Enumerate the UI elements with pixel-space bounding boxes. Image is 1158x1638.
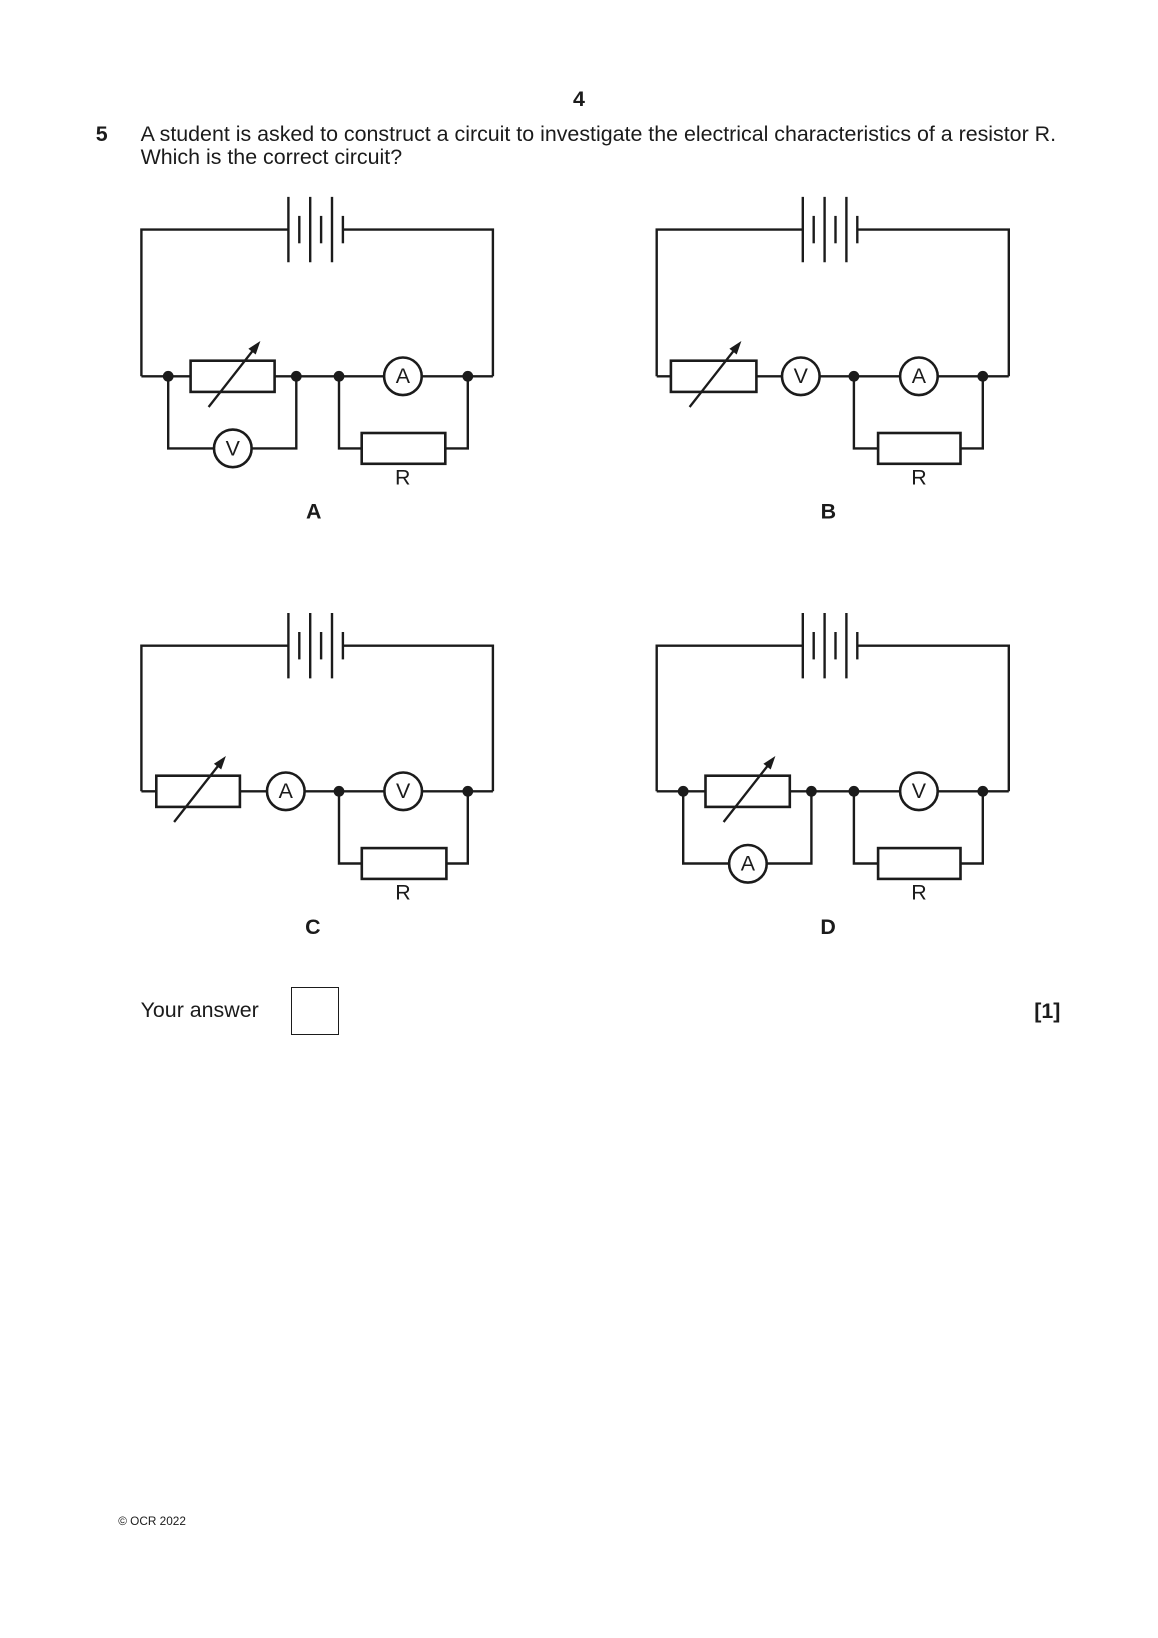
wire: circuit B resistor parallel branch	[854, 376, 983, 448]
wire: circuit D left vertical + top-left to battery	[657, 646, 803, 792]
svg-text:V: V	[912, 779, 927, 803]
battery (circuit C)	[288, 613, 343, 678]
resistor R (circuit D)	[878, 848, 960, 879]
svg-text:R: R	[395, 465, 410, 489]
svg-text:V: V	[396, 779, 411, 803]
variable resistor (circuit D)	[706, 756, 790, 822]
battery (circuit B)	[803, 197, 858, 262]
ammeter A (circuit B)	[900, 358, 938, 396]
variable resistor (circuit B)	[671, 341, 757, 407]
node junction dot 2 (circuit B)	[977, 371, 988, 382]
node junction dot 4 (circuit A)	[462, 371, 473, 382]
question text line 1	[141, 123, 1056, 147]
svg-text:A: A	[279, 779, 294, 803]
wire: circuit C main horizontal line	[141, 790, 493, 792]
wire: circuit B main horizontal line	[657, 375, 1009, 377]
node junction dot 2 (circuit C)	[462, 786, 473, 797]
node junction dot 4 (circuit D)	[977, 786, 988, 797]
svg-text:R: R	[395, 880, 410, 904]
wire: circuit D main horizontal line	[657, 790, 1009, 792]
svg-text:B: B	[821, 499, 836, 523]
node junction dot 3 (circuit A)	[334, 371, 345, 382]
voltmeter V (circuit D)	[900, 773, 938, 811]
wire: circuit A left vertical + top-left to battery	[141, 230, 288, 377]
wire: circuit C battery to top-right + right vertical	[343, 646, 493, 792]
wire: circuit D ammeter parallel branch	[683, 791, 811, 863]
wire: circuit A voltmeter parallel branch	[168, 376, 296, 448]
variable resistor (circuit A)	[191, 341, 275, 407]
node junction dot 1 (circuit C)	[334, 786, 345, 797]
node junction dot 1 (circuit A)	[163, 371, 174, 382]
wire: circuit B left vertical + top-left to battery	[657, 230, 803, 377]
wire: circuit D resistor parallel branch	[854, 791, 983, 863]
ammeter A (circuit D)	[729, 845, 767, 883]
page number	[0, 88, 1158, 112]
ammeter A (circuit C)	[267, 773, 305, 811]
voltmeter V (circuit A)	[214, 430, 252, 468]
wire: circuit B battery to top-right + right vertical	[857, 230, 1009, 377]
voltmeter V (circuit B)	[782, 358, 820, 396]
svg-text:D: D	[820, 915, 835, 939]
variable resistor (circuit C)	[156, 756, 240, 822]
svg-text:A: A	[306, 499, 321, 523]
footer copyright	[118, 1515, 186, 1528]
battery (circuit A)	[288, 197, 343, 262]
svg-text:R: R	[911, 465, 926, 489]
node junction dot 3 (circuit D)	[849, 786, 860, 797]
your answer prompt	[141, 999, 259, 1023]
mark [1]	[1034, 1000, 1060, 1024]
battery (circuit D)	[803, 613, 858, 678]
wire: circuit C left vertical + top-left to battery	[141, 646, 288, 792]
svg-text:A: A	[912, 364, 927, 388]
question number 5	[96, 123, 108, 147]
wire: circuit A battery to top-right + right vertical	[343, 230, 493, 377]
question text line 2	[141, 146, 403, 170]
svg-text:C: C	[305, 915, 320, 939]
svg-text:A: A	[741, 852, 756, 876]
svg-text:R: R	[911, 880, 926, 904]
wire: circuit A main horizontal line	[141, 375, 493, 377]
node junction dot 1 (circuit D)	[678, 786, 689, 797]
resistor R (circuit B)	[878, 433, 960, 464]
node junction dot 2 (circuit D)	[806, 786, 817, 797]
voltmeter V (circuit C)	[384, 773, 422, 811]
svg-text:A: A	[396, 364, 411, 388]
resistor R (circuit C)	[362, 848, 447, 879]
ammeter A (circuit A)	[384, 358, 422, 396]
node junction dot 1 (circuit B)	[849, 371, 860, 382]
wire: circuit A resistor parallel branch	[339, 376, 468, 448]
wire: circuit D battery to top-right + right vertical	[857, 646, 1009, 792]
node junction dot 2 (circuit A)	[291, 371, 302, 382]
svg-text:V: V	[794, 364, 809, 388]
wire: circuit C resistor parallel branch	[339, 791, 468, 863]
resistor R (circuit A)	[362, 433, 446, 464]
answer box	[291, 987, 339, 1035]
svg-text:V: V	[226, 436, 241, 460]
